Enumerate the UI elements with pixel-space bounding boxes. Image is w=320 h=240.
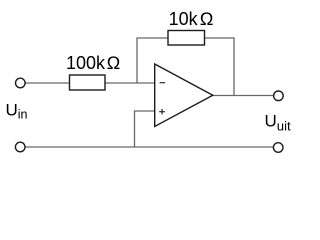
svg-text:10kΩ: 10kΩ (169, 9, 214, 29)
svg-text:100kΩ: 100kΩ (66, 53, 120, 73)
